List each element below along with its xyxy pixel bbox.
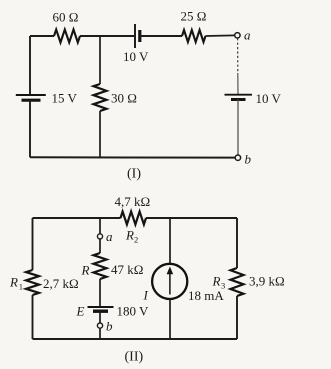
svg-text:180 V: 180 V (117, 304, 150, 319)
node a (open circle) (97, 229, 113, 244)
wire: right branch (battery 10V down to node b) (237, 100, 239, 155)
wire: top rail between 60Ω and battery 10V (80, 35, 134, 37)
wire: bottom rail of circuit I (30, 156, 235, 158)
svg-text:R: R (212, 274, 221, 289)
wire: top rail left segment (top-left corner to resistor 60Ω) (30, 35, 54, 37)
label (I) (127, 167, 141, 182)
svg-text:a: a (106, 229, 113, 244)
svg-text:I: I (143, 288, 149, 303)
battery 15V (16, 91, 78, 106)
svg-text:47 kΩ: 47 kΩ (111, 262, 143, 277)
svg-text:b: b (106, 319, 113, 334)
wire: bottom rail of circuit II (33, 338, 238, 340)
wire: middle branch (top rail to node a) (99, 218, 101, 234)
svg-text:b: b (245, 152, 252, 167)
wire: right rail lower (R3 to bottom rail) (236, 296, 238, 339)
svg-text:10 V: 10 V (123, 49, 149, 64)
svg-text:60 Ω: 60 Ω (53, 10, 79, 25)
svg-text:2,7 kΩ: 2,7 kΩ (43, 276, 79, 291)
resistor 25Ω (181, 9, 207, 43)
resistor R3 3.9kΩ (212, 268, 285, 296)
svg-text:15 V: 15 V (52, 91, 78, 106)
wire: right rail upper (corner to resistor R3) (236, 218, 238, 268)
svg-text:R: R (125, 228, 134, 243)
wire: middle branch (battery E to node b) (99, 311, 101, 323)
wire: top rail left segment (top-left corner to resistor R2) (33, 217, 121, 219)
node a (terminal, open circle) (235, 28, 251, 43)
wire: left rail upper (corner down to battery 15V) (29, 36, 31, 95)
svg-text:E: E (76, 304, 85, 319)
svg-text:1: 1 (19, 282, 23, 292)
wire: top rail from 25Ω to node a (206, 34, 235, 37)
svg-text:25 Ω: 25 Ω (181, 9, 207, 24)
svg-text:4,7 kΩ: 4,7 kΩ (115, 194, 151, 209)
svg-text:a: a (244, 28, 251, 43)
wire: current-source branch upper (top rail to source) (169, 218, 171, 264)
wire: middle branch lower (resistor 30Ω to bottom rail) (99, 111, 101, 157)
wire: middle branch (node a to resistor R) (99, 239, 101, 253)
svg-text:(II): (II) (125, 350, 144, 365)
wire: right branch (to battery 10V long plate) (237, 73, 239, 94)
wire: middle branch (node b to bottom rail) (99, 328, 101, 339)
resistor 60Ω (53, 10, 81, 43)
wire: top rail right segment (R2 to top-right corner) (146, 217, 237, 219)
wire: left rail lower (battery 15V to bottom rail) (29, 100, 31, 157)
label (II) (125, 350, 144, 365)
resistor 30Ω (94, 84, 137, 111)
svg-text:R: R (81, 263, 90, 278)
wire: middle branch (resistor R to battery E) (99, 279, 101, 307)
wire: middle branch upper (top rail to resistor 30Ω) (99, 36, 101, 84)
svg-text:30 Ω: 30 Ω (111, 91, 137, 106)
node b (open circle) (97, 319, 113, 334)
svg-text:2: 2 (134, 234, 138, 244)
svg-text:(I): (I) (127, 167, 141, 182)
battery E 180V (76, 304, 150, 319)
resistor R2 4.7kΩ (115, 194, 151, 244)
svg-text:10 V: 10 V (256, 91, 282, 106)
svg-text:R: R (9, 275, 18, 290)
resistor R 47kΩ (81, 253, 144, 279)
wire: current-source branch lower (source to bottom rail) (169, 299, 171, 339)
svg-text:3: 3 (221, 281, 225, 291)
battery 10V (right) (225, 91, 282, 106)
svg-text:18 mA: 18 mA (188, 288, 224, 303)
wire: right branch dashed (node a down toward battery) (237, 38, 239, 73)
svg-text:3,9 kΩ: 3,9 kΩ (249, 274, 285, 289)
wire: left rail lower (R1 to bottom rail) (32, 295, 34, 339)
current source I 18 mA (143, 264, 225, 303)
resistor R1 2.7kΩ (9, 270, 79, 295)
battery 10V (top, vertical plates) (123, 24, 149, 64)
wire: top rail between battery 10V and resistor 25Ω (140, 35, 182, 37)
node b (terminal, open circle) (235, 152, 251, 167)
wire: left rail upper (corner to resistor R1) (32, 218, 34, 270)
